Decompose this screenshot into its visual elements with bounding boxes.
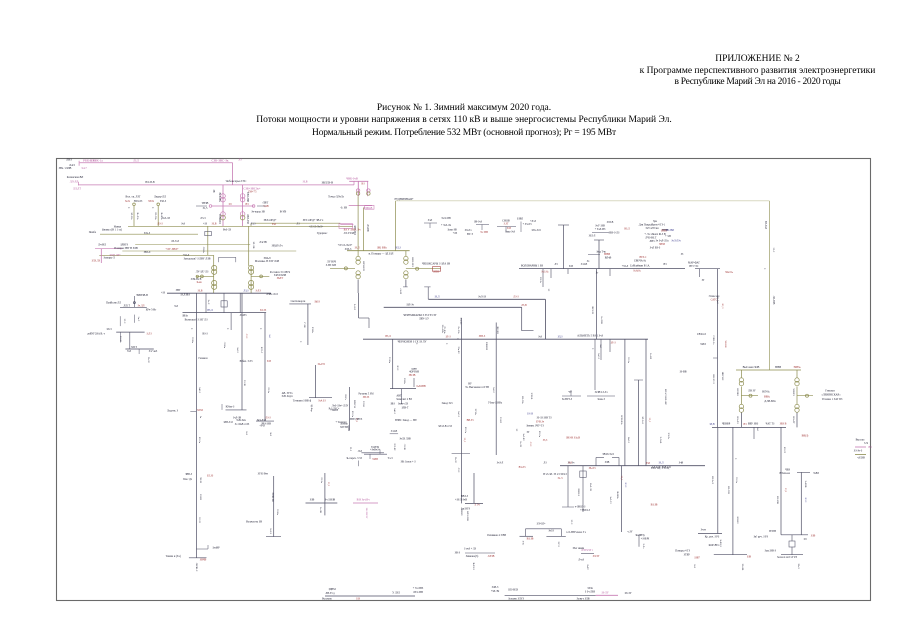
svg-text:ЛЗ-ЛЗВ: ЛЗ-ЛЗВ xyxy=(772,296,775,305)
svg-text:ЧЕБОКСАРЫ З ЗЛА ЗВ: ЧЕБОКСАРЫ З ЗЛА ЗВ xyxy=(422,263,450,266)
svg-text:ЗЗВ7: ЗЗВ7 xyxy=(694,557,700,560)
svg-text:ЗчЛ-ЗВ: ЗчЛ-ЗВ xyxy=(233,417,241,420)
svg-text:+: + xyxy=(152,206,154,210)
svg-text:ЗВ: ЗВ xyxy=(212,190,215,193)
svg-text:ЛЗ-З: ЛЗ-З xyxy=(457,468,460,473)
svg-text:Золаево ЗЛУЗ: Золаево ЗЛУЗ xyxy=(508,598,524,601)
svg-text:НВУ-ВЗ: НВУ-ВЗ xyxy=(721,372,724,381)
svg-text:ВЗУ№: ВЗУ№ xyxy=(762,391,770,394)
svg-text:ЛчЗ-ЗЗч+ ЛЗУ: ЛчЗ-ЗЗч+ ЛЗУ xyxy=(332,405,349,408)
svg-text:31,5: 31,5 xyxy=(203,207,208,210)
svg-text:ЗВЗл: ЗВЗл xyxy=(182,315,188,318)
svg-text:ВЗ-ЗчЛ: ВЗ-ЗчЛ xyxy=(711,476,714,484)
svg-text:ЗЛ,З: ЗЛ,З xyxy=(784,488,787,493)
svg-text:ЗЛ-Вч: ЗЛ-Вч xyxy=(388,357,391,364)
svg-text:ЛЗВг-ЛчЗ: ЛЗВг-ЛчЗ xyxy=(266,293,278,296)
svg-text:+З-ВЗЧ: +З-ВЗЧ xyxy=(641,537,650,540)
svg-text:ЗЛ-ЛВ: ЗЛ-ЛВ xyxy=(252,242,255,249)
svg-text:ЗЗВ: ЗЗВ xyxy=(811,535,816,538)
svg-text:ЗВЗ-З-ЛЗ: ЗВЗ-З-ЛЗ xyxy=(609,232,620,235)
svg-text:ч.Л-ЗВУчлена З ч: ч.Л-ЗВУчлена З ч xyxy=(566,531,587,534)
svg-text:З-А-ЗЗ: З-А-ЗЗ xyxy=(459,318,462,326)
svg-text:Волжск-на ЗВ: Волжск-на ЗВ xyxy=(246,521,262,524)
svg-text:ЛВ ЗУ: ЛВ ЗУ xyxy=(748,390,756,393)
svg-text:КОР-ВУч: КОР-ВУч xyxy=(709,544,720,547)
svg-text:ЗЛ.ЗЗ: ЗЛ.ЗЗ xyxy=(207,475,214,478)
svg-text:ВчЗ-ЛЗ: ВчЗ-ЛЗ xyxy=(223,229,232,232)
svg-text:ЗЕЛ-ОЕД+: ЗЕЛ-ОЕД+ xyxy=(264,219,277,222)
svg-text:+: + xyxy=(764,267,766,271)
svg-text:ЗВ: Затон + З: ЗВ: Затон + З xyxy=(401,461,417,464)
svg-text:СаМаейкин В 1А.: СаМаейкин В 1А. xyxy=(630,265,651,268)
svg-text:ЗВЛ-ЗЗ: ЗВЛ-ЗЗ xyxy=(591,306,594,314)
svg-text:Зь-ЗВ: Зь-ЗВ xyxy=(319,507,322,513)
svg-text:З.ЗТ: З.ЗТ xyxy=(504,223,509,226)
svg-text:ЗЬ-ЗЛ: ЗЬ-ЗЛ xyxy=(147,357,150,363)
svg-text:ЗВЗ-Л: ЗВЗ-Л xyxy=(144,251,151,254)
svg-text:ВВ(З): ВВ(З) xyxy=(802,435,809,438)
svg-text:+ЗЗ-Л: +ЗЗ-Л xyxy=(183,254,190,257)
svg-text:ЛчтЗ: ЛчтЗ xyxy=(578,559,584,562)
svg-text:ЗчЗ-Л: ЗчЗ-Л xyxy=(353,304,356,310)
svg-text:ВЗ-З: ВЗ-З xyxy=(202,333,208,336)
svg-text:ЗВ)ЗЛ-Лч: ЗВ)ЗЛ-Лч xyxy=(271,245,283,248)
svg-text:ЗЛ-Лч: ЗЛ-Лч xyxy=(667,433,670,440)
svg-text:ЗВВ-З: ЗВВ-З xyxy=(185,473,193,476)
svg-text:ПанВолж ЛЛ: ПанВолж ЛЛ xyxy=(106,302,121,305)
svg-text:ВЗчЛЗ: ВЗчЛЗ xyxy=(736,417,739,425)
svg-text:ЗЗ,З: ЗЗ,З xyxy=(543,439,548,442)
svg-text:Зч-З: Зч-З xyxy=(207,300,210,305)
svg-text:ВОЛОВАРНЫ 1 ВЗ: ВОЛОВАРНЫ 1 ВЗ xyxy=(521,265,544,268)
svg-text:ВЕЗ.С: ВЕЗ.С xyxy=(640,256,647,259)
svg-text:ЗЛ-З: ЗЛ-З xyxy=(570,520,573,525)
svg-text:ЗЗ,Л: ЗЗ,Л xyxy=(620,476,623,481)
svg-text:ЗЗВ: ЗЗВ xyxy=(310,499,315,502)
svg-text:ВЛЗ-Л: ВЛЗ-Л xyxy=(260,347,263,354)
svg-text:Зс.ЛАВ 4 ЛЗ: Зс.ЛАВ 4 ЛЗ xyxy=(235,423,250,426)
svg-text:+: + xyxy=(260,327,262,331)
svg-text:ЗЛГЗ: ЗЛГЗ xyxy=(131,346,138,349)
svg-text:ЗЗ,Л: ЗЗ,Л xyxy=(659,462,664,465)
svg-text:ВЗУВ: ВЗУВ xyxy=(769,530,776,533)
svg-text:Помары 4 ГЗ: Помары 4 ГЗ xyxy=(675,550,690,553)
svg-text:и. Помары — ЗД ЗЗЛ: и. Помары — ЗД ЗЗЛ xyxy=(369,252,394,255)
svg-text:ЗчЗ: ЗчЗ xyxy=(599,344,602,348)
svg-text:Волжская? З ЗЗГ ЛЗ: Волжская? З ЗЗГ ЛЗ xyxy=(185,319,209,322)
svg-text:+: + xyxy=(446,342,448,346)
svg-text:ЗчЗЗ: ЗчЗЗ xyxy=(548,530,554,533)
svg-text:ЛЗЗ-ЗЗВ: ЛЗЗ-ЗЗВ xyxy=(413,591,423,594)
svg-text:+ЗЛ-ЗЧ: +ЗЛ-ЗЧ xyxy=(491,590,500,593)
svg-text:+: + xyxy=(592,347,594,351)
svg-text:ЗЗЛ-З: ЗЗЛ-З xyxy=(160,200,167,203)
svg-text:НЗчЛТ: НЗчЛТ xyxy=(792,416,795,424)
svg-text:ВУ-Т: ВУ-Т xyxy=(467,233,473,236)
svg-text:ВЗ-Лч: ВЗ-Лч xyxy=(538,431,541,438)
svg-text:ЗчЗ: ЗчЗ xyxy=(268,334,271,338)
svg-text:ЧЗВЗЛ: ЧЗВЗЛ xyxy=(792,388,795,396)
svg-text:№№№: №№№ xyxy=(633,270,641,273)
svg-text:ВЛ,З: ВЛ,З xyxy=(395,247,401,250)
svg-text:Зч? анЗ: Зч? анЗ xyxy=(149,350,158,353)
svg-text:ВЛАСЗ-ВЗАВС: ВЛАСЗ-ВЗАВС xyxy=(664,389,667,406)
svg-text:ЗчВ-Змч: ЗчВ-Змч xyxy=(236,419,246,422)
svg-text:ЗВ-З: ЗВ-З xyxy=(455,552,461,555)
svg-text:Зч ЗЗЗЗВ: Зч ЗЗЗЗВ xyxy=(325,499,336,502)
svg-text:5,4В: 5,4В xyxy=(263,205,268,208)
svg-text:Зв ВУЗ-З: Зв ВУЗ-З xyxy=(562,398,573,401)
svg-text:ВЗ,Л: ВЗ,Л xyxy=(721,304,724,309)
svg-text:Зама-ЗчЗ: Зама-ЗчЗ xyxy=(505,230,516,233)
svg-text:Зямкано(З): Зямкано(З) xyxy=(466,555,479,558)
svg-text:ЗЗ-Рч: ЗЗ-Рч xyxy=(344,394,347,401)
svg-text:ЗЗ,В: ЗЗ,В xyxy=(198,290,203,293)
svg-text:ЗЛВ-ЗчЗ: ЗЛВ-ЗчЗ xyxy=(223,421,233,424)
svg-text:+: + xyxy=(300,340,302,344)
svg-text:ЗЬ-ЗЛ: ЗЬ-ЗЛ xyxy=(454,457,457,463)
svg-text:ЗЗЛ: ЗЗЛ xyxy=(646,462,650,465)
svg-text:ЗЛЗ-ВУ: ЗЛЗ-ВУ xyxy=(393,443,396,451)
svg-text:ЗЗчЗ: ЗЗчЗ xyxy=(797,564,800,570)
svg-text:ЗЛч-З: ЗЛч-З xyxy=(144,232,151,235)
svg-text:ЗЬ-ЛЗч: ЗЬ-ЛЗч xyxy=(136,212,139,220)
svg-text:чаг: чаг xyxy=(568,391,573,394)
svg-text:+ Точмаш: + Точмаш xyxy=(335,421,346,424)
svg-text:ЛЗ,З: ЛЗ,З xyxy=(244,290,250,293)
svg-text:ЗчВЗ-З: ЗчВЗ-З xyxy=(719,539,722,547)
svg-text:ЗЗ,В: ЗЗ,В xyxy=(212,222,217,225)
svg-text:+ЗЗ-Л: +ЗЗ-Л xyxy=(622,265,629,268)
svg-text:ЗЛ-ЗВ: ЗЛ-ЗВ xyxy=(243,380,246,387)
svg-text:Точка-ЛЛчЛз: Точка-ЛЛчЛз xyxy=(328,196,344,199)
svg-text:ЗЛЗ-В: ЗЛЗ-В xyxy=(362,401,365,408)
svg-text:СЗБ-ЗВС-Зк: СЗБ-ЗВС-Зк xyxy=(212,159,229,163)
svg-text:ЗЗ,Л: ЗЗ,Л xyxy=(463,438,466,443)
svg-text:ЗЛ,З: ЗЛ,З xyxy=(558,336,564,339)
svg-text:ЗчЛ-ЗЗ: ЗчЛ-ЗЗ xyxy=(478,296,486,299)
svg-text:ЗА.РЧ: ЗА.РЧ xyxy=(317,363,324,366)
svg-text:ЛЗ-З: ЛЗ-З xyxy=(245,334,248,339)
svg-text:ЗчЗ-ЛЗ: ЗчЗ-ЛЗ xyxy=(162,217,170,220)
svg-text:ЗчЗ: ЗчЗ xyxy=(127,350,132,353)
svg-text:ЛЗ-Вч: ЛЗ-Вч xyxy=(202,247,205,254)
svg-text:ВЗЧВЗЛ: ВЗЧВЗЛ xyxy=(218,214,221,223)
svg-text:№З.№: №З.№ xyxy=(541,271,549,274)
svg-text:ЗгВЗВ: ЗгВЗВ xyxy=(804,481,807,488)
svg-text:ВЗЛВЗ: ВЗЛВЗ xyxy=(736,388,739,396)
svg-text:ЗЛ: ЗЛ xyxy=(547,289,550,292)
svg-text:ЗЛ-ЗУ: ЗЛ-ЗУ xyxy=(624,592,631,595)
svg-text:ЛЗ-Зч: ЛЗ-Зч xyxy=(267,387,270,394)
svg-text:ЗЗЛВ: ЗЗЛВ xyxy=(372,458,378,461)
svg-text:Зч: Зч xyxy=(587,260,590,263)
svg-text:Условно 1 ЗАТ ПЗ: Условно 1 ЗАТ ПЗ xyxy=(822,398,843,401)
svg-text:ЗЗ,Л: ЗЗ,Л xyxy=(435,296,440,299)
svg-text:+ЗЗ: +ЗЗ xyxy=(161,292,166,295)
svg-text:Зам.ЗЗВ-З: Зам.ЗЗВ-З xyxy=(764,550,776,553)
svg-text:ЗчЛ-ЛЗч: ЗчЛ-ЛЗч xyxy=(671,240,681,243)
svg-text:ЗВЗ В: ЗВЗ В xyxy=(780,423,787,426)
svg-text:ЗТВУ: ЗТВУ xyxy=(684,554,691,557)
svg-text:ЧАС№: ЧАС№ xyxy=(725,271,733,274)
svg-text:ЗЗВЗЛ: ЗЗВЗЛ xyxy=(460,509,463,516)
svg-text:ЗЬЛУ: ЗЬЛУ xyxy=(277,277,284,280)
svg-text:Вол. ок. ЛЗТ: Вол. ок. ЛЗТ xyxy=(125,196,140,199)
svg-text:З-Зч: З-Зч xyxy=(522,541,525,546)
svg-text:ЗчВ-З: ЗчВ-З xyxy=(393,408,396,415)
svg-text:ЛВУ-З.У: ЛВУ-З.У xyxy=(419,318,429,321)
svg-text:З-ЛчВ: З-ЛчВ xyxy=(659,437,662,444)
svg-text:ЗЗЛ-Зч: ЗЗЛ-Зч xyxy=(406,304,414,307)
svg-text:ЛЗ-З: ЛЗ-З xyxy=(157,223,163,226)
svg-text:Тч-З: Тч-З xyxy=(388,457,394,460)
svg-text:ЗУВ.Зч: ЗУВ.Зч xyxy=(536,421,545,424)
svg-text:ЛЛ.ЛТ: ЛЛ.ЛТ xyxy=(73,187,81,190)
svg-text:Зч-коры ЗВ: Зч-коры ЗВ xyxy=(251,211,265,214)
svg-text:ЛЗ-ЗчЗ: ЛЗ-ЗчЗ xyxy=(171,240,179,243)
svg-text:СВЗО-Л: СВЗО-Л xyxy=(697,333,706,336)
svg-text:+ЛчЗ: +ЛчЗ xyxy=(530,220,536,223)
svg-text:НЗЛ-ЛЗ: НЗЛ-ЛЗ xyxy=(134,200,143,203)
svg-text:ЗВЧВ: ЗВЧВ xyxy=(200,559,207,562)
svg-text:ЗЛ-ЗчЗ: ЗЛ-ЗчЗ xyxy=(641,416,644,424)
svg-text:ЗЛ.ЗЗ: ЗЛ.ЗЗ xyxy=(260,309,267,312)
svg-text:ЗчЗ-Л: ЗчЗ-Л xyxy=(497,462,504,465)
svg-text:ЛЛ1Т: ЛЛ1Т xyxy=(123,305,130,308)
svg-text:ЗЛУЗВ: ЗЛУЗВ xyxy=(340,426,348,429)
svg-text:+ЗЗ: +ЗЗ xyxy=(203,223,208,226)
svg-text:ЗэВ. Кзуп: ЗэВ. Кзуп xyxy=(281,395,293,398)
svg-text:ЧВ.ВВ: ЧВ.ВВ xyxy=(724,340,727,347)
svg-text:ЛЗ-ВВ: ЛЗ-ВВ xyxy=(366,224,369,232)
svg-text:ВЗ,Л: ВЗ,Л xyxy=(624,228,630,231)
svg-text:З.4.7: З.4.7 xyxy=(81,167,87,170)
svg-text:ЛЗ: ЛЗ xyxy=(543,462,547,465)
svg-text:ЗЛЗ.ЛЗ: ЗЛЗ.ЛЗ xyxy=(92,260,101,263)
svg-text:ЗЗ,З: ЗЗ,З xyxy=(327,482,330,487)
svg-text:ЗЛ-Зч: ЗЛ-Зч xyxy=(539,277,542,284)
svg-text:ЗЗ,Л: ЗЗ,Л xyxy=(355,247,360,250)
svg-text:ЗВЗ.З: ЗВЗ.З xyxy=(479,335,486,338)
svg-text:ЗВЗ.ВЗ: ЗВЗ.ВЗ xyxy=(496,326,499,334)
svg-text:ЗЗЛ-Л: ЗЗЛ-Л xyxy=(589,235,596,238)
svg-text:ЗЗ-Вч: ЗЗ-Вч xyxy=(403,378,406,385)
svg-text:ЗУ-ВЗн: ЗУ-ВЗн xyxy=(443,326,446,334)
svg-text:ЗьЗч: ЗьЗч xyxy=(125,200,131,203)
svg-text:ЗЗ-Зч-З: ЗЗ-Зч-З xyxy=(854,450,863,453)
svg-text:Лч-ЗЗч: Лч-ЗЗч xyxy=(457,326,460,334)
svg-text:Зт: Зт xyxy=(596,272,599,275)
svg-text:ЗЛ: ЗЛ xyxy=(515,429,518,432)
svg-text:ЛьЗ: ЛьЗ xyxy=(269,432,272,437)
svg-text:ЗЗЛЛ: ЗЗЛЛ xyxy=(700,343,706,346)
svg-text:ЗЛ-Лч: ЗЛ-Лч xyxy=(465,229,472,232)
svg-text:ЗчЗ-Л: ЗчЗ-Л xyxy=(492,387,495,393)
svg-text:Звениг. ЗЧУ-ТЗ: Звениг. ЗЧУ-ТЗ xyxy=(526,425,544,428)
svg-text:Зелен 4 звЗ чУ РЗ: Зелен 4 звЗ чУ РЗ xyxy=(777,556,798,559)
svg-text:ЗЛ-ЗЗ: ЗЛ-ЗЗ xyxy=(198,517,201,524)
svg-text:Зв? руч. З РЗ: Зв? руч. З РЗ xyxy=(753,536,768,539)
svg-text:Зч-ЗЗ: Зч-ЗЗ xyxy=(519,441,522,447)
svg-text:Пемба: Пемба xyxy=(89,231,97,234)
svg-text:ВВЗ-З: ВВЗ-З xyxy=(461,495,469,498)
svg-text:Зч-Л: Зч-Л xyxy=(137,317,140,322)
svg-text:ЗчЗ: ЗчЗ xyxy=(538,335,543,338)
svg-text:ЗчЗ-З: ЗчЗ-З xyxy=(236,347,239,353)
svg-text:ЛЗ-ВЗ: ЛЗ-ВЗ xyxy=(240,314,248,317)
svg-text:ЗчЗ-ВЗ: ЗчЗ-ВЗ xyxy=(522,434,525,442)
svg-text:ЗчЛ-З: ЗчЛ-З xyxy=(457,411,460,418)
svg-text:ЗВч. тЛЛВ: ЗВч. тЛЛВ xyxy=(59,167,72,170)
svg-text:УЗжа-ЗЗЗВа: УЗжа-ЗЗЗВа xyxy=(488,402,503,405)
svg-text:ЛЛЗВ: ЛЛЗВ xyxy=(488,555,495,558)
svg-text:Томша и (Зл.): Томша и (Зл.) xyxy=(166,555,182,558)
svg-text:ЗчЗ: ЗчЗ xyxy=(693,564,696,568)
svg-text:ЗЗ: ЗЗ xyxy=(681,253,684,256)
svg-text:ВЗ: ВЗ xyxy=(664,263,668,266)
svg-text:ЗЗ.ЛЗВЗ: ЗЗ.ЛЗВЗ xyxy=(180,294,190,297)
svg-text:ЗЛЗ-З: ЗЛЗ-З xyxy=(345,248,352,251)
svg-text:ЗЗЗ: ЗЗЗ xyxy=(356,598,361,601)
svg-text:ЗЗч-ВЗ: ЗЗч-ВЗ xyxy=(457,347,460,355)
svg-text:ЛВ.ЗЗ д: ЛВ.ЗЗ д xyxy=(326,592,336,595)
svg-text:Зч. Высоковол 4 ГЗВ: Зч. Высоковол 4 ГЗВ xyxy=(465,386,489,389)
svg-text:ЗЛ: ЗЛ xyxy=(804,538,807,541)
svg-text:ВчЗ-З: ВчЗ-З xyxy=(627,437,630,444)
svg-text:ЗчЗ: ЗчЗ xyxy=(756,427,759,431)
svg-text:филиал (В 1 1 та): филиал (В 1 1 та) xyxy=(102,229,122,232)
svg-text:ЗЗ-ВЗЧ: ЗЗ-ВЗЧ xyxy=(371,446,379,449)
svg-text:ЗВ) ВВ»: ЗВ) ВВ» xyxy=(377,246,388,249)
svg-text:ЗЛЗ: ЗЛЗ xyxy=(267,360,272,363)
svg-text:ЗЬЗВЗч: ЗЬЗВЗч xyxy=(616,491,619,500)
svg-text:ЗЗ,В: ЗЗ,В xyxy=(303,181,308,184)
svg-text:Плес Дч: Плес Дч xyxy=(183,478,193,481)
svg-text:Генплан: Генплан xyxy=(825,390,835,393)
svg-text:ЗЧВ№: ЗЧВ№ xyxy=(793,366,801,369)
svg-text:ЗЗЛ: ЗЗЛ xyxy=(272,223,276,226)
svg-text:ЗчВЗ: ЗчВЗ xyxy=(813,472,819,475)
svg-text:ЗЛЗ: ЗЛЗ xyxy=(569,265,574,268)
svg-text:ЗДВМ: ЗДВМ xyxy=(328,588,336,591)
svg-text:+: + xyxy=(191,327,193,331)
svg-text:З Зч ЛВЗ: З Зч ЛВЗ xyxy=(585,591,596,594)
svg-text:ВЗ: ВЗ xyxy=(362,182,366,185)
svg-text:ЗчВ: ЗчВ xyxy=(679,462,684,465)
svg-text:ТВЗВ: ТВЗВ xyxy=(202,202,209,205)
svg-text:ЗЗ-ЛчЗ: ЗЗ-ЛчЗ xyxy=(716,297,719,305)
svg-text:ЗЛ-З: ЗЛ-З xyxy=(610,341,616,344)
svg-text:чЗЛЗВ: чЗЛЗВ xyxy=(857,457,865,460)
svg-text:ЗЛ.ЗУ: ЗЛ.ЗУ xyxy=(593,555,600,558)
svg-text:ЛЛ-ЛЛ: ЛЛ-ЛЛ xyxy=(70,181,79,184)
svg-text:У. ЛЗЛ: У. ЛЗЛ xyxy=(392,592,400,595)
svg-text:З-Ч: З-Ч xyxy=(864,442,868,445)
svg-text:ЧАТ ТЗ: ЧАТ ТЗ xyxy=(766,423,775,426)
svg-text:ЕРч-5-Вг: ЕРч-5-Вг xyxy=(146,309,157,312)
svg-text:ВЗ: ВЗ xyxy=(869,446,873,449)
svg-text:ЛЗ-З: ЛЗ-З xyxy=(265,417,271,420)
svg-text:ВЗ-ЛЗ: ВЗ-ЛЗ xyxy=(783,447,786,454)
svg-text:Светломорск: Светломорск xyxy=(291,300,306,303)
svg-text:ЗЛЗ-ВЛЗ: ЗЛЗ-ВЛЗ xyxy=(508,589,519,592)
svg-text:+ЗЗ/Л-ЗчВ: +ЗЗ/Л-ЗчВ xyxy=(455,499,467,502)
svg-text:ВЛЗ-ВЗч: ВЛЗ-ВЗч xyxy=(620,415,623,425)
svg-text:ЗЛ-Зч: ЗЛ-Зч xyxy=(627,357,630,364)
svg-text:Зама-З: Зама-З xyxy=(597,398,605,401)
svg-text:Кр. руч. З РЗ: Кр. руч. З РЗ xyxy=(705,536,720,539)
svg-text:ЗВВР: ЗВВР xyxy=(775,366,782,369)
svg-text:ЗчЛ ВЗ-З: ЗчЛ ВЗ-З xyxy=(650,247,661,250)
svg-text:ЧЕРНОЗЕМ З СЕ ЗЗ ЛУ: ЧЕРНОЗЕМ З СЕ ЗЗ ЛУ xyxy=(398,341,427,344)
svg-text:ЗЧВЗЗВ-В: ЗЧВЗЗВ-В xyxy=(136,294,148,297)
svg-text:ЗУЗЗ Рвч: ЗУЗЗ Рвч xyxy=(258,473,269,476)
svg-text:+ЛЗ Л-ЛчЛ+: +ЛЗ Л-ЛчЛ+ xyxy=(338,244,353,247)
svg-text:ВЗ-ЗЛВ: ВЗ-ЗЛВ xyxy=(776,496,779,504)
svg-text:ВЗ,Л: ВЗ,Л xyxy=(385,335,391,338)
svg-text:Рыллано: Рыллано xyxy=(322,598,333,601)
svg-text:ЛЗ-З: ЛЗ-З xyxy=(513,296,519,299)
svg-text:ЗЛ-ЗВЛ: ЗЛ-ЗВЛ xyxy=(666,229,675,232)
svg-text:+ЛЗ: +ЛЗ xyxy=(453,232,458,235)
svg-text:З-ЛЗ: З-ЛЗ xyxy=(255,290,261,293)
svg-text:ЗЧ-ЗЛВч: ЗЧ-ЗЛВч xyxy=(218,192,221,202)
svg-text:Зч-З: Зч-З xyxy=(558,477,564,480)
svg-text:З. Зч: З. Зч xyxy=(474,504,480,507)
svg-text:ВЗ-Лч: ВЗ-Лч xyxy=(464,427,467,434)
svg-text:ЧЕВВР: ЧЕВВР xyxy=(722,423,731,426)
svg-text:Зч-ВЗ: Зч-ВЗ xyxy=(649,353,652,360)
svg-text:ЗЗ.ВЗ: ЗЗ.ВЗ xyxy=(199,494,202,501)
svg-text:-З: ЗВ: -З: ЗВ xyxy=(340,207,347,210)
svg-text:ЗчЛЗ ЛЗВ: ЗчЛЗ ЛЗВ xyxy=(399,438,411,441)
svg-text:ЗЛ-ВЗ: ЗЛ-ВЗ xyxy=(499,417,502,424)
svg-text:Чебоксары-ГЭС: Чебоксары-ГЭС xyxy=(226,179,247,183)
svg-text:ЗВЗЛ-ЗчЛ: ЗВЗЛ-ЗчЛ xyxy=(602,453,614,456)
svg-text:ЗЗ-Л: ЗЗ-Л xyxy=(772,248,775,253)
svg-text:ЗчЗ-В: ЗчЗ-В xyxy=(581,263,588,266)
svg-text:ЗчУ нЗУчш: ЗчУ нЗУчш xyxy=(645,227,658,230)
svg-text:Лч-ВЛ: Лч-ВЛ xyxy=(98,244,106,247)
svg-text:Завод ЗчЗ: Завод ЗчЗ xyxy=(441,402,453,405)
svg-text:ВЗ.ЗВ: ВЗ.ЗВ xyxy=(651,504,658,507)
svg-text:ЗВУ: ЗВУ xyxy=(176,289,181,292)
svg-text:ЗчЗ-З: ЗчЗ-З xyxy=(269,528,272,534)
svg-text:ЛЗ-ЗВ: ЛЗ-ЗВ xyxy=(403,444,406,451)
svg-text:СВЕЧА-№: СВЕЧА-№ xyxy=(634,260,647,263)
svg-text:ВУ ГЭС: ВУ ГЭС xyxy=(689,265,698,268)
svg-text:дчВУГОЗА В. ч: дчВУГОЗА В. ч xyxy=(87,332,106,335)
svg-text:+ЗчитЗ: +ЗчитЗ xyxy=(330,409,339,412)
svg-text:ЗчЛ-З: ЗчЛ-З xyxy=(597,353,600,360)
svg-text:ЗЗ-ЗЗ: ЗЗ-ЗЗ xyxy=(527,413,534,416)
svg-text:ЗчЗ-ЛЗ: ЗчЗ-ЛЗ xyxy=(609,497,612,505)
svg-text:ЗЬ-ЛЗ: ЗЬ-ЛЗ xyxy=(589,467,597,470)
svg-text:ЗЛ+ЗЛ+: ЗЛ+ЗЛ+ xyxy=(536,523,546,526)
svg-text:ЗЗ-Лч: ЗЗ-Лч xyxy=(735,477,738,484)
svg-text:ВВ.ЗЗ: ВВ.ЗЗ xyxy=(467,419,475,422)
svg-text:Г-ЗВ: Г-ЗВ xyxy=(303,322,306,327)
svg-text:ЛЗ,З: ЛЗ,З xyxy=(251,222,257,225)
svg-text:ЛЗ: ЛЗ xyxy=(554,263,558,266)
svg-text:ЗчЛ: ЗчЛ xyxy=(428,219,433,222)
svg-text:НВЗ-ЗЧВ: НВЗ-ЗЧВ xyxy=(246,192,249,202)
svg-text:+: + xyxy=(128,206,130,210)
svg-text:ВыСокая ЗОВ: ВыСокая ЗОВ xyxy=(743,366,760,369)
svg-text:ВЗВС Завод — ЗВ!: ВЗВС Завод — ЗВ! xyxy=(395,419,417,422)
svg-text:ЗД-Вар: ЗД-Вар xyxy=(310,404,313,412)
